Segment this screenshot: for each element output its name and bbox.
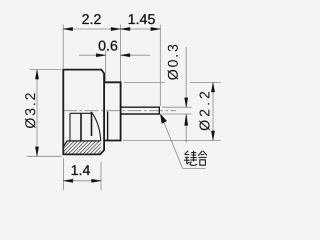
合 — [198, 151, 207, 165]
dimension Ø3.2: dimension line — [36, 70, 38, 157]
dimension text Ø3.2 — [25, 93, 36, 128]
键 radical — [184, 151, 189, 164]
键 right part — [190, 151, 197, 166]
dimension line 1.4 — [63, 180, 101, 182]
pin — [121, 107, 160, 114]
dimension line 0.6 (outside arrows) — [79, 54, 150, 56]
dimension line 1.4: extension lines — [63, 158, 101, 190]
centerline — [63, 110, 176, 112]
glass seal right face — [91, 112, 93, 136]
dimension text 0.6 — [99, 41, 118, 51]
dimension text 1.45 — [129, 14, 155, 24]
flange inner face (section) — [107, 112, 109, 141]
extension line: pin tip (for 1.45) — [159, 25, 161, 107]
dimension text 2.2 — [82, 14, 100, 24]
dimension Ø3.2: extension lines — [27, 70, 62, 157]
dimension text Ø0.3 — [168, 45, 179, 80]
dimension Ø2.2: dimension line — [212, 83, 214, 141]
bore left face — [69, 113, 71, 141]
bore inner line (pin lower edge inside body, section) — [70, 112, 92, 114]
glass meniscus curve — [92, 112, 101, 141]
dimension text 1.4 — [72, 165, 90, 175]
dimension text Ø2.2 — [199, 92, 210, 131]
flange — [104, 82, 121, 140]
dimension Ø0.3: leader lines with arrows — [185, 47, 187, 143]
dimension Ø2.2: extension lines — [123, 83, 221, 141]
body outline (main cylinder, side view with half-section below) — [63, 70, 104, 155]
dimension line 2.2 — [63, 28, 120, 30]
extension line: flange right edge (for 2.2/1.45/0.6) — [120, 25, 122, 82]
glass seal left face — [80, 113, 82, 141]
label 键合 (bonding) drawn strokes — [184, 151, 207, 166]
extension line: body right edge (for 0.6) — [105, 51, 107, 82]
dimension line 1.45 — [121, 28, 161, 30]
extension line: body left edge (for 2.2) — [62, 25, 64, 69]
dimension Ø0.3: extension lines (pin edges extended right) — [162, 107, 192, 114]
leader line for bonding label — [161, 115, 206, 169]
